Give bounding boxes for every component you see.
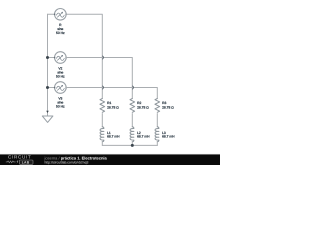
wire source R (V1) right feed <box>66 14 102 98</box>
voltage source V3 <box>55 82 67 94</box>
label source V2 <box>56 66 65 78</box>
svg-text:68.7 mH: 68.7 mH <box>107 135 120 139</box>
resistor R2 <box>130 99 135 113</box>
wire R1-L1 <box>101 114 103 127</box>
node crossing branch2 x V3 wire <box>132 86 135 89</box>
footer logo bolt <box>17 161 19 164</box>
svg-text:28.78 Ω: 28.78 Ω <box>107 106 119 110</box>
label R2 value <box>137 101 149 110</box>
node crossing branch1 x V2 wire <box>102 56 105 59</box>
node junction dot neutral-V3 <box>46 86 49 89</box>
wire R3-L3 <box>156 114 158 127</box>
wire L2-bus <box>131 142 133 146</box>
svg-text:CIRCUIT: CIRCUIT <box>8 155 32 160</box>
svg-text:50 Hz: 50 Hz <box>56 104 65 108</box>
label R3 value <box>162 101 174 110</box>
ground triangle <box>42 116 53 122</box>
inductor L3 <box>155 127 159 142</box>
svg-text:68.7 mH: 68.7 mH <box>137 135 150 139</box>
svg-text:LAB: LAB <box>22 160 30 164</box>
voltage source V2 <box>55 52 67 64</box>
label L2 value <box>137 131 150 139</box>
footer logo LAB box <box>19 160 33 164</box>
svg-text:http://circuitlab.com/c/v52nq3: http://circuitlab.com/c/v52nq3 <box>45 160 89 164</box>
wire R2-L2 <box>131 114 133 127</box>
wire source V2 left stub <box>48 57 55 59</box>
label R1 value <box>107 101 119 110</box>
wire neutral vertical <box>47 14 49 116</box>
ground arrowhead <box>46 111 49 113</box>
svg-text:68.7 mH: 68.7 mH <box>162 135 175 139</box>
svg-text:50 Hz: 50 Hz <box>56 31 65 35</box>
footer bar <box>0 153 220 156</box>
node crossing branch1 x V3 wire <box>102 86 105 89</box>
svg-text:R3: R3 <box>162 101 166 105</box>
wire L3-bus <box>156 142 158 146</box>
footer logo resistor zigzag <box>6 161 16 163</box>
wire source V3 right feed <box>66 88 157 99</box>
label L3 value <box>162 131 175 139</box>
svg-text:28.78 Ω: 28.78 Ω <box>162 106 174 110</box>
wire source V2 right feed <box>66 58 132 99</box>
svg-text:R2: R2 <box>137 101 141 105</box>
resistor R1 <box>100 99 105 113</box>
node junction dot bus-L2 <box>131 144 134 147</box>
inductor L1 <box>100 127 104 142</box>
label source R <box>56 23 65 35</box>
node junction dot neutral-V2 <box>46 56 49 59</box>
voltage source R (V1) <box>55 9 67 21</box>
label source V3 <box>56 96 65 108</box>
inductor L2 <box>130 127 134 142</box>
wire bottom bus <box>102 144 157 146</box>
wire source R left stub <box>48 13 55 15</box>
svg-text:50 Hz: 50 Hz <box>56 74 65 78</box>
wire source V3 left stub <box>48 87 55 89</box>
svg-text:R1: R1 <box>107 101 111 105</box>
label L1 value <box>107 131 120 139</box>
svg-text:28.78 Ω: 28.78 Ω <box>137 106 149 110</box>
resistor R3 <box>155 99 160 113</box>
wire L1-bus <box>101 142 103 146</box>
